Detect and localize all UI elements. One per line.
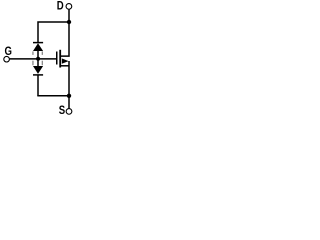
svg-text:S: S — [59, 104, 65, 117]
svg-text:G: G — [5, 45, 12, 58]
svg-text:D: D — [57, 0, 64, 13]
